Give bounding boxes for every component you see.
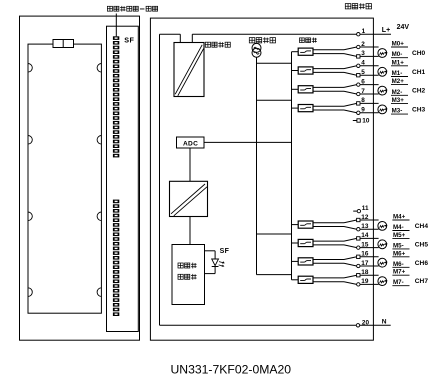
wire M1- to transducer xyxy=(360,74,379,76)
terminal 5 (M1-) xyxy=(357,74,360,77)
terminal 14 (M5+) xyxy=(357,237,360,240)
2-wire transducer CH5 xyxy=(378,240,388,249)
wire pair mux CH5 to terminals xyxy=(313,238,357,247)
wire M5+ to transducer xyxy=(360,237,379,239)
svg-text:CH6: CH6 xyxy=(415,260,429,267)
svg-text:M6+: M6+ xyxy=(393,250,406,257)
label M3+ with wire stub xyxy=(391,97,408,104)
svg-text:M7+: M7+ xyxy=(393,269,406,276)
terminal strip box xyxy=(107,26,139,331)
wire feed B to mux CH2 xyxy=(292,88,299,90)
label M7- with wire stub xyxy=(392,279,409,286)
wire isolation down to backplane interface xyxy=(189,217,191,245)
wire M5- to transducer xyxy=(360,247,379,249)
wire pair mux CH1 to terminals xyxy=(313,66,357,75)
backplane bus interface block xyxy=(172,245,205,305)
label: internal power xyxy=(205,42,230,48)
svg-text:SF: SF xyxy=(124,35,134,44)
svg-text:24V: 24V xyxy=(397,24,410,31)
wire pair mux CH0 to terminals xyxy=(313,47,357,56)
2-wire transducer CH4 xyxy=(378,222,388,231)
multiplexer switch block CH6 xyxy=(298,258,313,265)
label M3- with wire stub xyxy=(391,108,408,115)
svg-text:M7-: M7- xyxy=(393,279,404,286)
terminal strip squares (lower section) xyxy=(113,200,119,316)
vertical feed B to multiplexers xyxy=(291,52,293,280)
wire ADC down to isolation xyxy=(189,148,191,181)
ADC block xyxy=(177,137,205,148)
2-wire transducer CH6 xyxy=(378,258,388,267)
wire M6+ to transducer xyxy=(360,256,379,258)
svg-text:UN331-7KF02-0MA20: UN331-7KF02-0MA20 xyxy=(171,362,292,376)
multiplexer switch block CH0 xyxy=(298,48,313,55)
wire M0+ to transducer xyxy=(360,46,379,48)
rung A-B y274.6 xyxy=(257,274,292,276)
svg-text:M4-: M4- xyxy=(393,224,404,231)
wire feed B to mux CH6 xyxy=(292,260,299,262)
svg-text:11: 11 xyxy=(362,205,369,212)
terminal 8 (M3+) xyxy=(357,102,360,105)
multiplexer switch block CH4 xyxy=(298,221,313,228)
terminal 12 (M4+) xyxy=(357,218,360,221)
wire M0- to transducer xyxy=(360,55,379,57)
wire feed B to mux CH1 xyxy=(292,70,299,72)
current source transformer symbol xyxy=(252,43,261,57)
svg-text:M5+: M5+ xyxy=(393,232,406,239)
terminal 3 (M0-) xyxy=(357,55,360,58)
label M4- with wire stub xyxy=(392,224,409,231)
svg-text:M0-: M0- xyxy=(392,51,403,58)
internal power supply block xyxy=(174,43,204,97)
wire pair mux CH2 to terminals xyxy=(313,85,357,94)
wire M3+ to transducer xyxy=(360,102,379,104)
label M0- with wire stub xyxy=(391,51,408,58)
svg-text:CH1: CH1 xyxy=(412,69,426,76)
label M0+ with wire stub xyxy=(391,41,408,48)
label leader line xyxy=(115,14,117,37)
terminal 16 (M6+) xyxy=(357,255,360,258)
2-wire transducer CH7 xyxy=(378,277,388,286)
svg-text:N: N xyxy=(382,318,387,325)
svg-text:SF: SF xyxy=(220,248,230,255)
label M1+ with wire stub xyxy=(391,59,408,66)
label M5- with wire stub xyxy=(392,242,409,249)
wire M4+ to transducer xyxy=(360,219,379,221)
LED light arrows xyxy=(219,261,225,267)
terminal 13 (M4-) xyxy=(357,228,360,231)
wire feed B to mux CH7 xyxy=(292,279,299,281)
left module inner faceplate xyxy=(28,44,101,313)
wire pair mux CH3 to terminals xyxy=(313,103,357,112)
wire pair mux CH7 to terminals xyxy=(313,275,357,284)
terminal 17 (M6-) xyxy=(357,264,360,267)
label M5+ with wire stub xyxy=(392,232,409,239)
terminal 9 (M3-) xyxy=(357,111,360,114)
wire feed B to mux CH3 xyxy=(292,107,299,109)
wire M7- to transducer xyxy=(360,283,379,285)
terminal 20 (M/N) xyxy=(356,324,359,327)
terminal 18 (M7+) xyxy=(357,274,360,277)
wire M7+ to transducer xyxy=(360,274,379,276)
right module outer box xyxy=(150,18,373,340)
left module outer outline xyxy=(20,16,140,340)
label M6+ with wire stub xyxy=(392,250,409,257)
wire M3- to transducer xyxy=(360,112,379,114)
label M2+ with wire stub xyxy=(391,78,408,85)
rung A-B y63 xyxy=(257,62,292,64)
terminal 4 (M1+) xyxy=(357,64,360,67)
svg-text:M5-: M5- xyxy=(393,242,404,249)
terminal 19 (M7-) xyxy=(357,283,360,286)
terminal 7 (M2-) xyxy=(357,92,360,95)
wire feed B to mux CH5 xyxy=(292,242,299,244)
boundary jog stubs into power block xyxy=(180,34,192,42)
svg-text:M3-: M3- xyxy=(392,108,403,115)
wire M2+ to transducer xyxy=(360,84,379,86)
2-wire transducer CH1 xyxy=(378,67,388,76)
svg-text:CH3: CH3 xyxy=(412,107,426,114)
label M6- with wire stub xyxy=(392,261,409,268)
svg-text:M4+: M4+ xyxy=(393,214,406,221)
svg-text:CH0: CH0 xyxy=(412,50,426,57)
svg-text:1: 1 xyxy=(362,28,366,35)
module electronics boundary: left edge xyxy=(159,34,161,325)
svg-text:20: 20 xyxy=(362,319,370,326)
wire M2- to transducer xyxy=(360,93,379,95)
vertical feed A from transformer xyxy=(256,57,258,274)
wire ADC to mux feed bus xyxy=(204,141,292,143)
2-wire transducer CH0 xyxy=(378,49,388,58)
label: current power supply xyxy=(249,37,275,43)
svg-text:M6-: M6- xyxy=(393,261,404,268)
faceplate top tab xyxy=(53,40,74,48)
rung A-B y100 xyxy=(257,99,292,101)
svg-text:L+: L+ xyxy=(382,27,390,34)
svg-text:M3+: M3+ xyxy=(392,97,405,104)
module boundary top edge (with gap at power block) xyxy=(160,33,392,35)
svg-text:10: 10 xyxy=(362,118,370,125)
svg-text:M1-: M1- xyxy=(392,70,403,77)
label M2- with wire stub xyxy=(391,89,408,96)
terminal 6 (M2+) xyxy=(357,83,360,86)
svg-text:M0+: M0+ xyxy=(392,41,405,48)
multiplexer switch block CH5 xyxy=(298,239,313,246)
rung A-B y234 xyxy=(257,233,292,235)
terminal 15 (M5-) xyxy=(357,246,360,249)
label: backplane bus interface (2 lines) xyxy=(178,263,197,280)
2-wire transducer CH3 xyxy=(378,105,388,114)
wire M4- to transducer xyxy=(360,228,379,230)
fault indicator label (red) xyxy=(107,6,157,12)
svg-text:M1+: M1+ xyxy=(392,59,405,66)
svg-text:ADC: ADC xyxy=(183,140,198,147)
wire pair mux CH6 to terminals xyxy=(313,257,357,266)
faceplate notches xyxy=(28,64,101,297)
svg-text:CH2: CH2 xyxy=(412,88,426,95)
multiplexer switch block CH1 xyxy=(298,67,313,74)
label M1- with wire stub xyxy=(391,70,408,77)
terminal 2 (M0+) xyxy=(357,45,360,48)
svg-text:CH7: CH7 xyxy=(415,278,429,285)
terminal strip squares (upper section) xyxy=(113,36,119,157)
label M4+ with wire stub xyxy=(392,214,409,221)
label M7+ with wire stub xyxy=(392,269,409,276)
multiplexer switch block CH7 xyxy=(298,276,313,283)
terminal 11 stub xyxy=(353,209,360,212)
label: current measurement (title) xyxy=(345,3,371,9)
wire feed B to mux CH4 xyxy=(292,224,299,226)
svg-text:M2+: M2+ xyxy=(392,78,405,85)
svg-text:CH5: CH5 xyxy=(415,241,429,248)
wire feed B to mux CH0 xyxy=(292,51,299,53)
svg-text:M2-: M2- xyxy=(392,89,403,96)
module boundary bottom edge (M return / N wire) xyxy=(160,324,391,326)
wire pair mux CH4 to terminals xyxy=(313,220,357,229)
isolation block xyxy=(170,181,208,216)
2-wire transducer CH2 xyxy=(378,86,388,95)
terminal 10 stub xyxy=(353,119,361,122)
terminal 1 (L+) xyxy=(357,33,360,36)
multiplexer switch block CH3 xyxy=(298,105,313,112)
wire M1+ to transducer xyxy=(360,65,379,67)
SF LED loop on backplane interface xyxy=(205,251,219,274)
svg-text:CH4: CH4 xyxy=(415,223,429,230)
wire M6- to transducer xyxy=(360,265,379,267)
label: multiplexer xyxy=(300,38,317,43)
multiplexer switch block CH2 xyxy=(298,86,313,93)
